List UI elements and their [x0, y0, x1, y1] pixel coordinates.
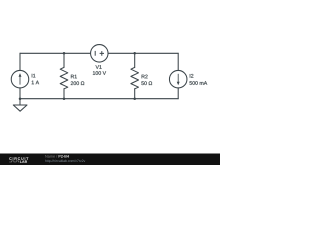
logo CIRCUIT [9, 157, 28, 160]
wire R2 bottom lead [134, 89, 136, 99]
current source I2 [169, 70, 187, 88]
label V1 [96, 65, 102, 69]
resistor R2 [131, 67, 139, 88]
footer name text [45, 155, 57, 158]
wire R1 top lead [63, 53, 65, 67]
I1 arrow shaft [19, 76, 21, 84]
I2 arrow head [177, 82, 180, 86]
value 200 ohm [71, 81, 85, 85]
I1 arrow head [19, 73, 22, 77]
label R2 [142, 75, 148, 79]
wire top-right segment [108, 52, 178, 54]
value 50 ohm [141, 81, 152, 85]
wire right vertical lower [177, 88, 179, 99]
footer name id text [59, 155, 69, 158]
logo LAB [20, 160, 27, 162]
label R1 [71, 75, 77, 79]
wire R2 top lead [134, 53, 136, 67]
I2 arrow shaft [177, 74, 179, 82]
value 500 mA [190, 81, 208, 85]
wire bottom [20, 98, 178, 100]
wire left vertical lower [19, 88, 21, 99]
ground [13, 105, 27, 111]
logo waveform [9, 161, 19, 162]
node dot top R1 [63, 52, 66, 55]
wire R1 bottom lead [63, 89, 65, 99]
V1 minus terminal [94, 51, 96, 56]
V1 plus terminal [100, 51, 104, 56]
label I2 [190, 74, 194, 78]
current source I1 [11, 70, 29, 88]
wire top-left segment [20, 52, 91, 54]
value 1 A [32, 81, 39, 85]
resistor R1 [60, 67, 68, 88]
footer bar [0, 154, 220, 166]
node dot bottom R1 [63, 97, 66, 100]
voltage source V1 [91, 45, 109, 63]
node dot ground [19, 97, 22, 100]
wire left vertical upper [19, 53, 21, 70]
label I1 [32, 74, 36, 78]
value 100 V [93, 71, 106, 75]
node dot bottom R2 [133, 97, 136, 100]
footer url text [45, 160, 85, 163]
node dot top R2 [133, 52, 136, 55]
wire ground stem [19, 99, 21, 105]
wire right vertical upper [177, 53, 179, 70]
